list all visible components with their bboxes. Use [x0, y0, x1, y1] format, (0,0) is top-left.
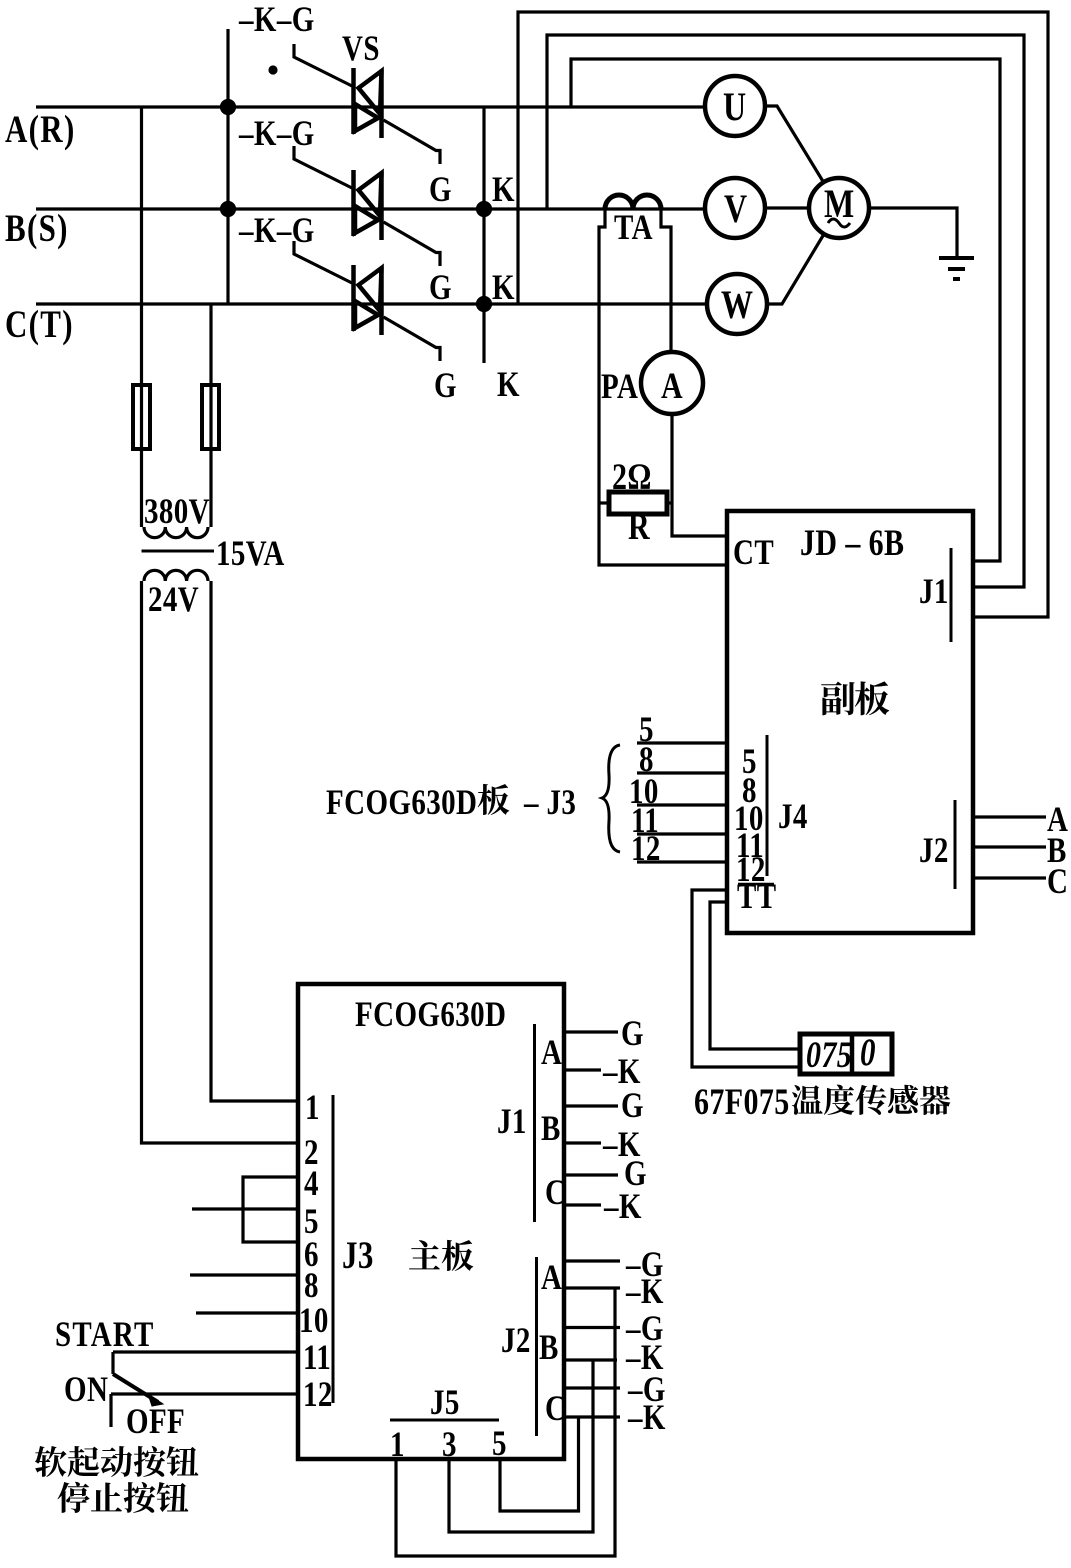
wire pin10 [196, 1311, 298, 1314]
svg-text:J1: J1 [497, 1102, 527, 1142]
stray dot [270, 67, 276, 73]
svg-text:W: W [721, 283, 753, 327]
board FCOG630D (主板) [298, 984, 564, 1459]
svg-text:R: R [628, 507, 650, 548]
svg-text:67F075: 67F075 [694, 1082, 790, 1123]
wire J1-B cathode K [564, 1141, 601, 1144]
svg-text:10: 10 [299, 1301, 329, 1341]
svg-text:K: K [492, 268, 515, 308]
svg-text:C(T): C(T) [5, 303, 74, 346]
ground [939, 256, 974, 260]
svg-text:11: 11 [303, 1338, 331, 1378]
svg-text:A: A [661, 366, 683, 407]
connector J1 (JD-6B) [950, 548, 953, 642]
svg-text:J1: J1 [919, 572, 949, 612]
wire J1-A cathode K [564, 1068, 601, 1071]
svg-text:4: 4 [304, 1164, 319, 1204]
wire J1-B gate G [564, 1104, 618, 1107]
wire J2-C -G [564, 1386, 620, 1389]
svg-text:PA: PA [601, 367, 638, 407]
fuse FU1 [140, 385, 143, 449]
wire fuse A drop [140, 107, 143, 385]
junction K on line B [478, 203, 491, 216]
svg-text:G: G [621, 1086, 644, 1126]
wire J2 pin A [973, 815, 1046, 818]
wire J4 pin 8 [637, 771, 727, 774]
wire pin5 [192, 1207, 298, 1210]
wire pin11 [113, 1350, 298, 1353]
wire J5 pin1 loop to -K(A) [396, 1288, 615, 1556]
fuse FU2 [209, 385, 212, 449]
label 停止按钮 [57, 1482, 89, 1513]
svg-text:G: G [434, 366, 457, 406]
current transformer TA [605, 195, 661, 209]
wire line A to JD-6B J1 (inner loop) [571, 59, 1000, 561]
wire line B to JD-6B J1 (middle loop) [547, 35, 1024, 587]
thyristor (triac) VS-B [354, 170, 382, 240]
label 副板 [821, 682, 855, 716]
wire line C to JD-6B J1 (outer loop) [518, 12, 1048, 617]
svg-text:FCOG630D: FCOG630D [355, 995, 506, 1035]
svg-text:C: C [545, 1389, 566, 1429]
wire secondary right to board pin1 [211, 581, 298, 1101]
ammeter PA [641, 352, 703, 414]
transformer T 380V/24V 15VA [140, 449, 143, 527]
wire J4 pin 10 [637, 803, 727, 806]
svg-text:–K–G: –K–G [238, 114, 315, 154]
voltmeter V [705, 178, 765, 238]
wire fuse C drop [209, 304, 212, 385]
svg-text:J5: J5 [430, 1383, 460, 1423]
svg-text:G: G [429, 268, 452, 308]
svg-text:VS: VS [342, 29, 380, 69]
wire J4 pin 12 [637, 860, 727, 863]
voltmeter U [705, 76, 765, 136]
svg-text:– J3: – J3 [523, 783, 576, 823]
svg-text:CT: CT [733, 533, 774, 573]
wire pin8 [190, 1273, 298, 1276]
connector J3 pins [332, 1095, 335, 1403]
svg-text:J2: J2 [919, 831, 949, 871]
voltmeter W [707, 274, 767, 334]
wire J2-B -G [564, 1326, 620, 1329]
svg-text:B: B [541, 1109, 561, 1149]
wire phase C [36, 302, 707, 305]
svg-text:B(S): B(S) [5, 207, 69, 250]
wire pin12 [111, 1392, 298, 1395]
wire J1-C cathode K [564, 1203, 601, 1206]
gate wire VS-A [294, 44, 352, 86]
wire J2-B -K [564, 1358, 617, 1361]
junction K on line C [478, 298, 491, 311]
svg-text:8: 8 [304, 1266, 319, 1306]
wire J4 pin 5 [637, 741, 727, 744]
wire M to ground [869, 208, 957, 258]
svg-text:K: K [492, 170, 515, 210]
svg-text:TT: TT [737, 877, 776, 917]
svg-text:G: G [621, 1014, 644, 1054]
gate wire VS-C [294, 241, 352, 283]
wire W to M [767, 234, 824, 304]
label 软起动按钮 [35, 1446, 67, 1477]
wire A to CT [672, 414, 727, 536]
svg-text:–K: –K [627, 1398, 666, 1438]
thyristor (triac) VS-A [354, 68, 382, 138]
wire J1-C gate G [564, 1173, 618, 1176]
connector J2 (JD-6B) [954, 800, 957, 889]
board JD-6B (副板) [727, 511, 973, 933]
svg-text:TA: TA [614, 208, 653, 248]
resistor R 2Ω [609, 492, 667, 514]
svg-text:J2: J2 [501, 1321, 531, 1361]
label 主板 [409, 1240, 440, 1269]
connector J1 (main) [533, 1024, 536, 1222]
wire J2-A -G [564, 1259, 620, 1262]
junction on line B [222, 203, 235, 216]
svg-text:C: C [545, 1173, 566, 1213]
svg-text:24V: 24V [148, 580, 199, 620]
svg-text:380V: 380V [144, 492, 210, 532]
primary winding [144, 527, 208, 538]
svg-text:A(R): A(R) [5, 108, 76, 151]
svg-text:–K–G: –K–G [238, 211, 315, 251]
svg-text:J4: J4 [778, 797, 808, 837]
svg-text:U: U [723, 85, 747, 129]
wire U to M [765, 106, 824, 183]
temperature sensor 67F075 [800, 1034, 892, 1074]
wires TT to sensor [692, 890, 800, 1067]
wire phase A [36, 105, 705, 108]
motor M [809, 178, 869, 238]
svg-text:1: 1 [390, 1425, 405, 1465]
svg-text:5: 5 [492, 1424, 507, 1464]
secondary winding [144, 570, 208, 581]
wire phase B [36, 207, 705, 210]
svg-text:C: C [1047, 862, 1068, 902]
wire V to M [765, 206, 809, 209]
svg-text:FCOG630D: FCOG630D [326, 783, 477, 823]
svg-text:–K: –K [603, 1187, 642, 1227]
svg-text:G: G [429, 170, 452, 210]
svg-text:15VA: 15VA [216, 534, 285, 574]
svg-text:A: A [541, 1258, 562, 1298]
wire K bus vertical [482, 107, 485, 363]
svg-text:B: B [539, 1328, 559, 1368]
wire J2 pin C [973, 876, 1046, 879]
wire J5 pin3 loop to -K(B) [449, 1360, 593, 1532]
svg-text:0: 0 [860, 1031, 876, 1074]
svg-text:12: 12 [303, 1375, 333, 1415]
svg-text:12: 12 [631, 829, 661, 869]
svg-text:J3: J3 [342, 1234, 374, 1277]
svg-text:2Ω: 2Ω [612, 457, 652, 498]
svg-text:K: K [497, 365, 520, 405]
wire J2 pin B [973, 845, 1046, 848]
wire -K bus vertical [226, 29, 229, 304]
svg-text:1: 1 [305, 1088, 320, 1128]
wire secondary left to board pin2 [142, 581, 299, 1143]
svg-text:M: M [824, 182, 855, 226]
svg-text:–K: –K [625, 1272, 664, 1312]
wire J5 pin5 loop to -K(C) [500, 1417, 579, 1511]
gate wire VS-B [294, 146, 352, 188]
svg-text:V: V [724, 187, 748, 231]
svg-text:3: 3 [442, 1425, 457, 1465]
wire J2-A -K [564, 1286, 620, 1289]
connector J4 pins [766, 735, 769, 876]
wire pin4-pin6 jumper [243, 1177, 298, 1242]
connector J2 (main) [535, 1257, 538, 1436]
svg-text:ON: ON [64, 1370, 108, 1410]
junction on line A [222, 101, 235, 114]
wire J2-C -K [564, 1415, 620, 1418]
svg-text:START: START [55, 1315, 154, 1355]
svg-text:075: 075 [806, 1035, 852, 1076]
thyristor (triac) VS-C [354, 265, 382, 335]
brace J3 [602, 745, 620, 852]
svg-text:JD – 6B: JD – 6B [800, 523, 904, 564]
svg-text:A: A [541, 1033, 562, 1073]
svg-text:–K–G: –K–G [238, 0, 315, 40]
wire J1-A gate G [564, 1030, 618, 1033]
wire J4 pin 11 [637, 832, 727, 835]
svg-text:OFF: OFF [126, 1402, 185, 1442]
